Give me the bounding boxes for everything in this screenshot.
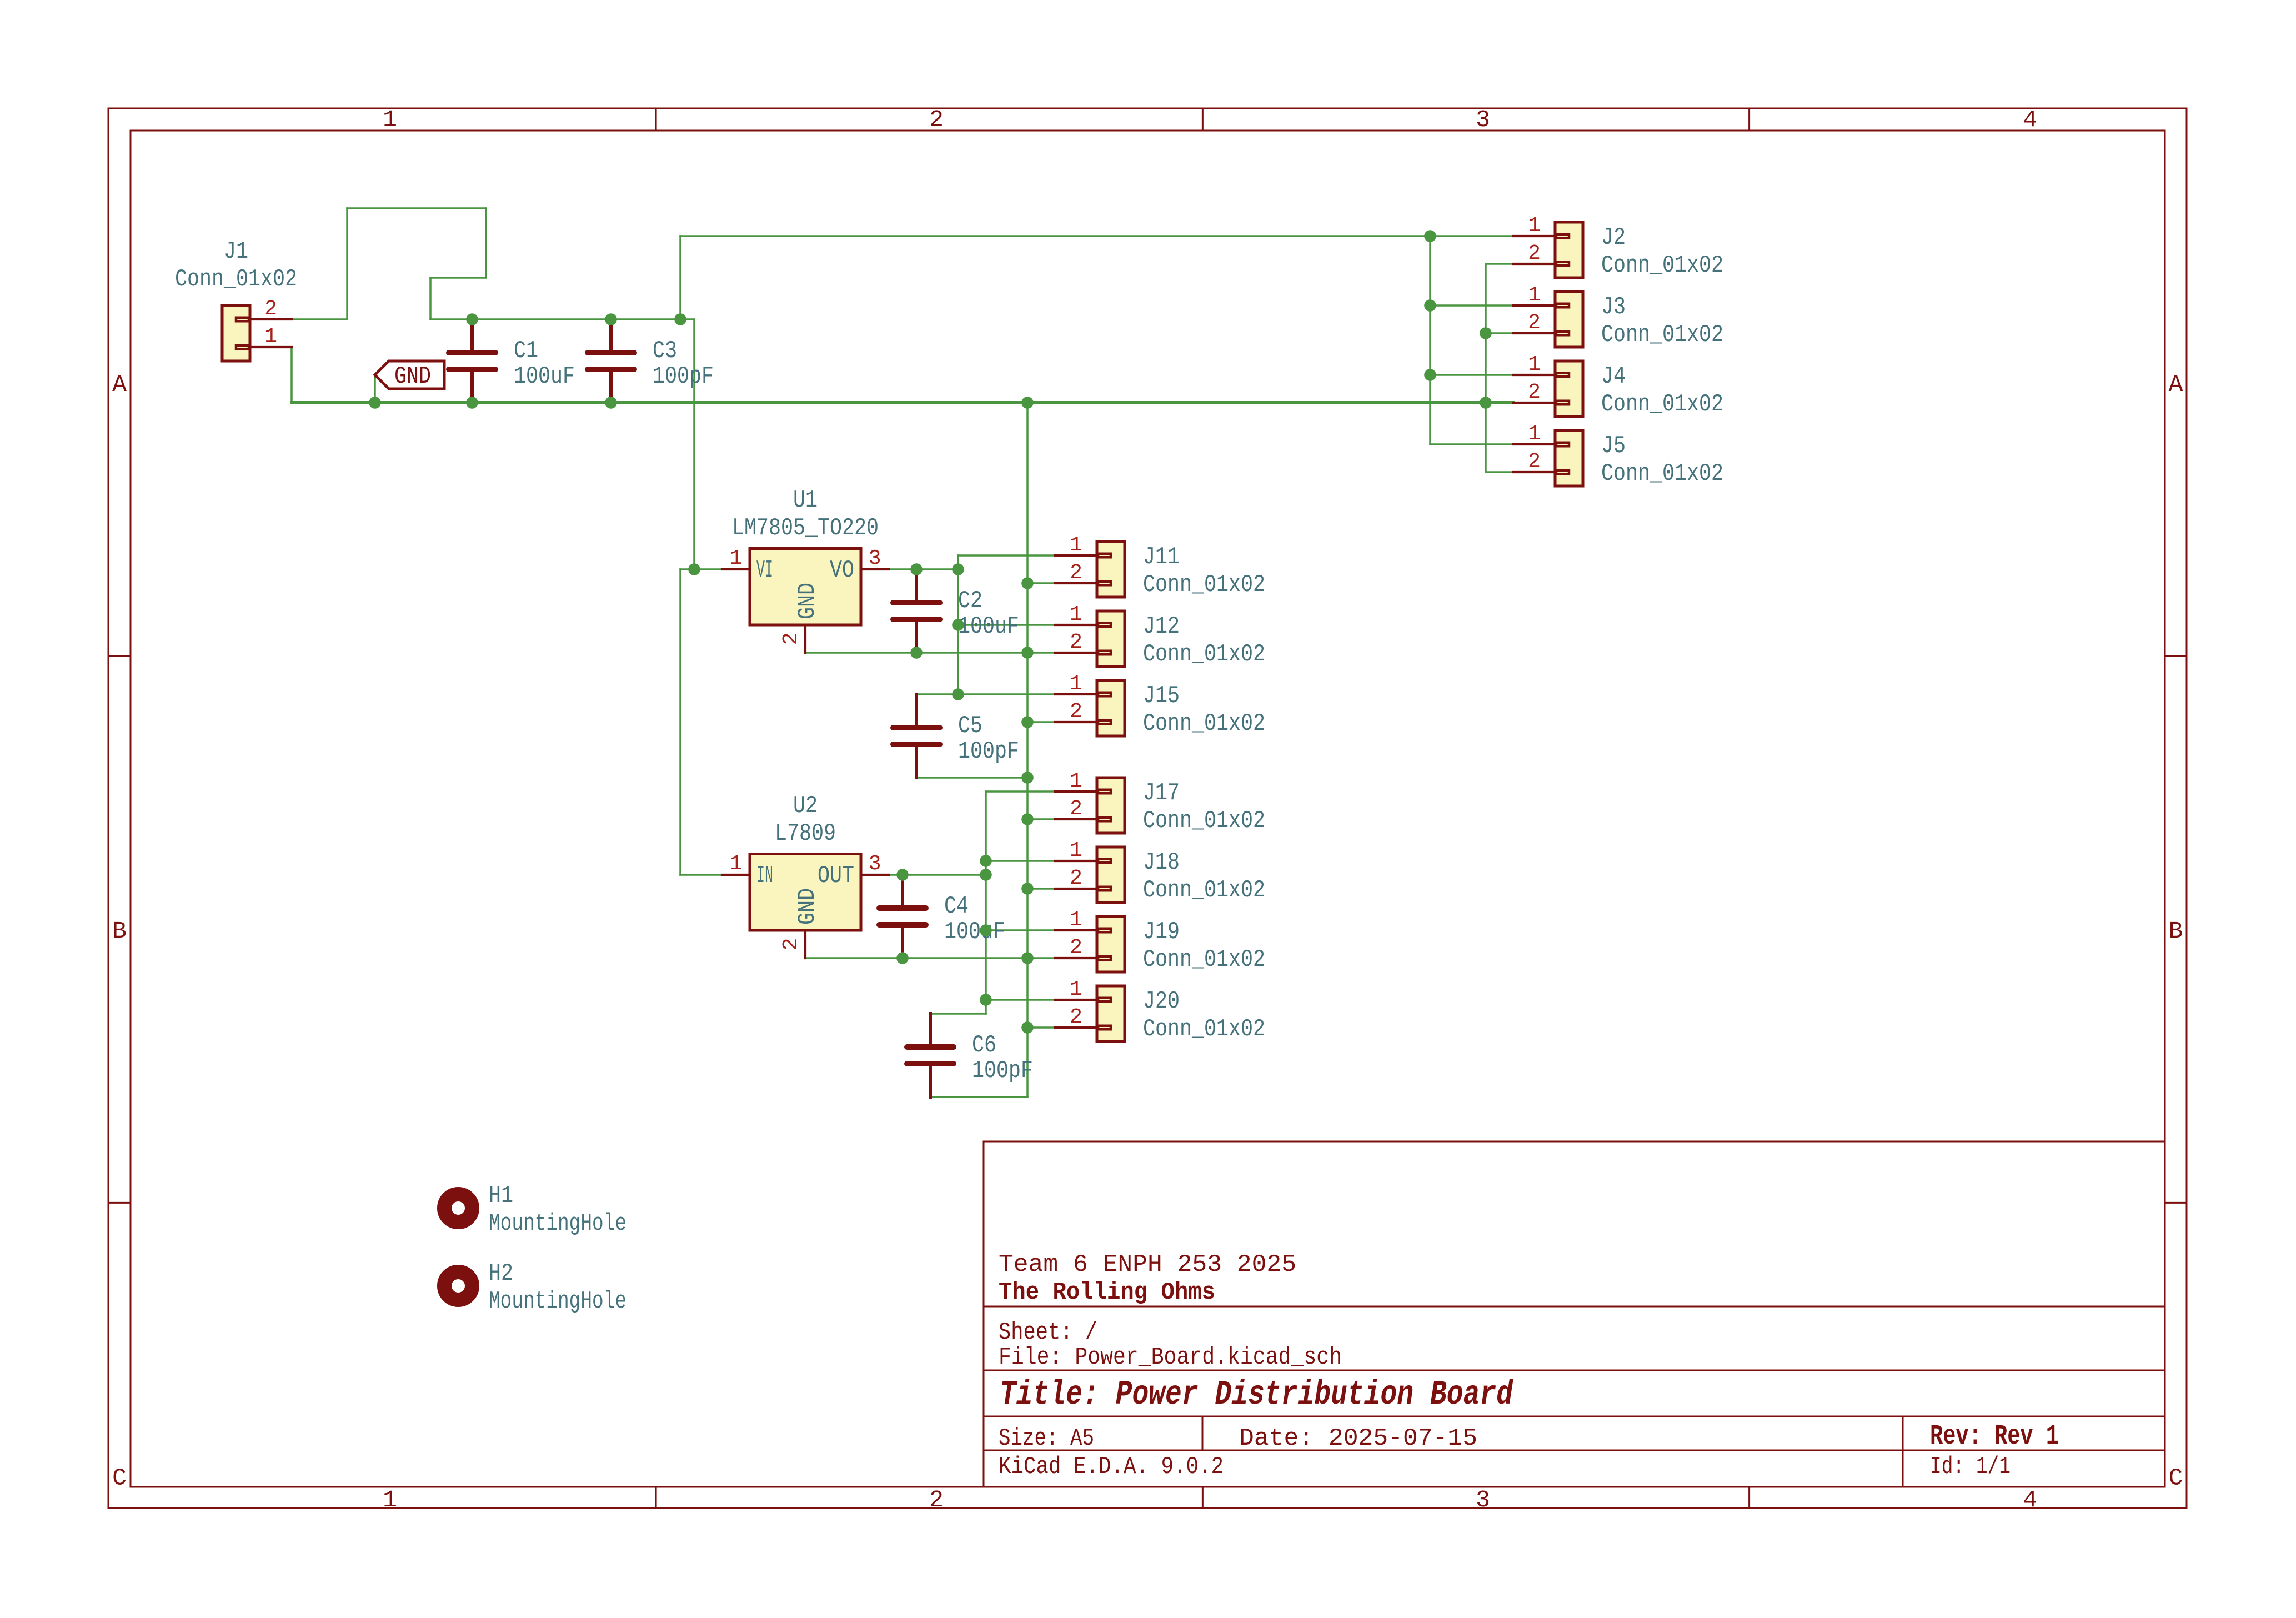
svg-text:VO: VO [830,557,854,584]
svg-text:3: 3 [869,852,881,876]
svg-text:3: 3 [1476,106,1490,133]
svg-text:1: 1 [1070,603,1082,627]
svg-text:1: 1 [1070,908,1082,932]
svg-text:Conn_01x02: Conn_01x02 [1601,460,1723,488]
svg-text:1: 1 [383,106,397,133]
svg-text:2: 2 [1070,561,1082,585]
svg-text:C6: C6 [972,1031,996,1059]
svg-text:2: 2 [1070,1005,1082,1029]
svg-text:2: 2 [1528,311,1541,335]
svg-text:B: B [2169,918,2183,945]
svg-text:1: 1 [383,1486,397,1514]
svg-text:2: 2 [929,106,944,133]
svg-text:J11: J11 [1143,543,1180,571]
svg-text:J1: J1 [224,238,248,266]
svg-text:Title: Power Distribution Boar: Title: Power Distribution Board [1000,1376,1513,1414]
svg-text:IN: IN [756,862,773,890]
svg-text:Conn_01x02: Conn_01x02 [1143,710,1265,738]
svg-text:B: B [112,918,127,945]
svg-text:Date: 2025-07-15: Date: 2025-07-15 [1239,1425,1477,1452]
svg-text:C3: C3 [653,337,677,365]
svg-text:2: 2 [779,938,803,951]
svg-text:J12: J12 [1143,613,1180,640]
svg-text:4: 4 [2023,106,2037,133]
svg-text:Conn_01x02: Conn_01x02 [1601,252,1723,279]
svg-text:J5: J5 [1601,432,1626,460]
svg-text:1: 1 [1070,839,1082,863]
svg-text:File: Power_Board.kicad_sch: File: Power_Board.kicad_sch [999,1344,1342,1371]
svg-text:2: 2 [1070,936,1082,960]
svg-text:1: 1 [1528,214,1541,238]
svg-text:1: 1 [1070,978,1082,1001]
svg-text:J3: J3 [1601,293,1626,321]
svg-text:J19: J19 [1143,918,1180,946]
svg-text:2: 2 [264,297,277,321]
svg-text:2: 2 [1528,380,1541,404]
svg-text:Rev: Rev 1: Rev: Rev 1 [1930,1421,2059,1452]
svg-text:100pF: 100pF [653,363,714,390]
svg-text:100pF: 100pF [958,738,1019,765]
svg-text:100uF: 100uF [514,363,575,390]
svg-text:GND: GND [394,363,431,390]
svg-text:C: C [2169,1464,2183,1491]
svg-text:2: 2 [929,1486,944,1514]
svg-text:J4: J4 [1601,363,1626,390]
svg-text:1: 1 [730,547,743,570]
svg-text:100uF: 100uF [944,918,1005,946]
svg-text:1: 1 [1528,353,1541,377]
svg-text:Conn_01x02: Conn_01x02 [1143,1015,1265,1043]
svg-text:2: 2 [1070,797,1082,821]
svg-text:Team 6 ENPH 253 2025: Team 6 ENPH 253 2025 [999,1251,1296,1279]
svg-text:J15: J15 [1143,682,1180,710]
svg-text:J17: J17 [1143,779,1180,807]
svg-text:2: 2 [779,633,803,645]
svg-text:Size: A5: Size: A5 [999,1425,1094,1452]
svg-text:A: A [2169,371,2183,398]
svg-text:1: 1 [730,852,743,876]
svg-text:The Rolling Ohms: The Rolling Ohms [999,1279,1215,1306]
svg-text:MountingHole: MountingHole [489,1288,626,1315]
svg-text:H1: H1 [489,1182,513,1210]
svg-text:VI: VI [756,557,773,584]
svg-text:H2: H2 [489,1260,513,1288]
svg-text:LM7805_TO220: LM7805_TO220 [732,514,879,542]
svg-text:U2: U2 [793,792,818,820]
svg-text:1: 1 [264,325,277,349]
svg-text:2: 2 [1070,700,1082,724]
svg-text:Conn_01x02: Conn_01x02 [175,266,297,293]
svg-text:Conn_01x02: Conn_01x02 [1601,321,1723,349]
svg-text:KiCad E.D.A. 9.0.2: KiCad E.D.A. 9.0.2 [999,1453,1224,1481]
svg-text:GND: GND [794,583,821,619]
svg-text:Id: 1/1: Id: 1/1 [1930,1453,2011,1481]
svg-text:J2: J2 [1601,224,1626,252]
svg-text:4: 4 [2023,1486,2037,1514]
svg-text:1: 1 [1070,672,1082,696]
svg-text:GND: GND [794,888,821,925]
svg-text:3: 3 [869,547,881,570]
svg-text:100uF: 100uF [958,613,1019,640]
svg-text:A: A [112,371,127,398]
svg-text:OUT: OUT [818,862,854,890]
svg-text:1: 1 [1070,769,1082,793]
svg-text:L7809: L7809 [775,820,836,848]
svg-text:C1: C1 [514,337,538,365]
svg-text:2: 2 [1070,866,1082,890]
svg-text:J20: J20 [1143,988,1180,1015]
svg-text:Conn_01x02: Conn_01x02 [1143,640,1265,668]
svg-text:1: 1 [1528,283,1541,307]
svg-text:2: 2 [1528,450,1541,474]
svg-text:J18: J18 [1143,849,1180,876]
svg-text:2: 2 [1070,630,1082,654]
svg-text:C2: C2 [958,587,982,615]
svg-text:3: 3 [1476,1486,1490,1514]
svg-text:U1: U1 [793,487,818,514]
svg-text:2: 2 [1528,242,1541,266]
svg-text:C5: C5 [958,712,982,740]
svg-text:Sheet: /: Sheet: / [999,1319,1097,1346]
svg-text:Conn_01x02: Conn_01x02 [1601,390,1723,418]
svg-text:Conn_01x02: Conn_01x02 [1143,876,1265,904]
svg-text:Conn_01x02: Conn_01x02 [1143,946,1265,974]
svg-text:1: 1 [1070,533,1082,557]
svg-text:MountingHole: MountingHole [489,1210,626,1238]
svg-text:C4: C4 [944,893,969,920]
svg-text:Conn_01x02: Conn_01x02 [1143,807,1265,835]
svg-text:100pF: 100pF [972,1057,1033,1085]
svg-text:1: 1 [1528,422,1541,446]
svg-text:C: C [112,1464,127,1491]
svg-text:Conn_01x02: Conn_01x02 [1143,571,1265,599]
